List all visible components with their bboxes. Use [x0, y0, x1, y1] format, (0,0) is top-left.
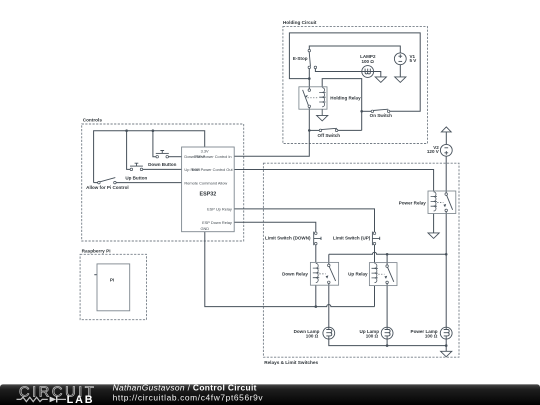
- junction node On Switch column: [360, 110, 363, 113]
- wire up button drop: [127, 131, 132, 170]
- wire down relay coil bottom drop: [315, 285, 317, 306]
- wire power relay coil bottom to ground: [433, 214, 435, 233]
- wire On Switch left stub: [362, 110, 373, 112]
- pushbutton Up Button: [130, 163, 143, 170]
- section box Relays & Limit Switches: [263, 163, 459, 357]
- wire V1 minus to ground: [399, 65, 401, 77]
- relay U Holding Relay: [299, 87, 327, 109]
- svg-text:NathanGustavson / Control Circ: NathanGustavson / Control Circuit: [113, 382, 257, 392]
- junction node down relay coil / gnd bus: [315, 305, 318, 308]
- switch Limit Switch (DOWN): [314, 232, 321, 246]
- wire down button to ESP Down Read: [167, 156, 181, 158]
- wire allow-switch left stub: [94, 182, 99, 184]
- svg-text:On Switch: On Switch: [370, 113, 392, 118]
- voltage source V2: [440, 144, 452, 156]
- ground (power relay coil): [428, 233, 439, 239]
- ground (LAMP2): [375, 77, 386, 83]
- wire ESP Up Relay to Limit Switch (UP): [234, 209, 374, 232]
- node flag above V2: [441, 127, 451, 132]
- wire allow-switch to ESP Remote Command Allow: [115, 182, 182, 184]
- section box Controls: [82, 124, 244, 241]
- logo diode: [50, 397, 57, 403]
- wire Limit Switch (UP) to up relay coil: [374, 245, 376, 263]
- wire LAMP2 right to ground: [374, 72, 381, 77]
- FOOTER: [0, 382, 540, 405]
- ground (V1): [395, 77, 406, 83]
- junction node up lamp / ground bus: [386, 344, 389, 347]
- svg-text:5 V: 5 V: [410, 58, 417, 63]
- svg-text:Holding Relay: Holding Relay: [330, 95, 361, 100]
- wire Up Lamp bottom stub: [386, 339, 388, 346]
- ground (lamp bus): [441, 351, 452, 357]
- junction node power lamp column / bus: [445, 253, 448, 256]
- wire up relay switch top riser: [386, 254, 388, 266]
- svg-text:Off Switch: Off Switch: [318, 133, 341, 138]
- svg-text:Power Relay: Power Relay: [399, 201, 427, 206]
- svg-text:ESP Power Control In: ESP Power Control In: [194, 154, 232, 159]
- wire lamp ground bus: [329, 339, 446, 346]
- svg-text:ESP32: ESP32: [200, 191, 217, 197]
- svg-text:Down Button: Down Button: [148, 162, 177, 167]
- junction node down button tap: [152, 129, 155, 132]
- wire Power Lamp bottom stub and ground stem: [445, 339, 447, 351]
- ic U ESP32 box: [182, 147, 235, 232]
- wire V2 minus to power relay switch top: [445, 156, 447, 194]
- junction node up relay switch / bus: [386, 253, 389, 256]
- svg-text:ESP Power Control Out: ESP Power Control Out: [192, 167, 234, 172]
- wire ESP Down Relay to Limit Switch (DOWN): [234, 222, 316, 232]
- svg-text:Limit Switch (UP): Limit Switch (UP): [333, 236, 371, 241]
- junction node up button tap: [125, 129, 128, 132]
- svg-text:3.3V: 3.3V: [201, 148, 209, 153]
- svg-text:http://circuitlab.com/c4fw7pt6: http://circuitlab.com/c4fw7pt656r9v: [113, 392, 264, 402]
- svg-text:Pi: Pi: [110, 278, 114, 283]
- switch SW E-Stop: [308, 49, 317, 68]
- svg-text:ESP Down Relay: ESP Down Relay: [202, 220, 232, 225]
- wire down relay switch top riser: [328, 254, 330, 265]
- svg-text:Relays & Limit Switches: Relays & Limit Switches: [264, 360, 318, 365]
- wire down relay switch to Down Lamp: [328, 282, 330, 327]
- section box Holding Circuit: [283, 27, 428, 144]
- lamp Up Lamp: [381, 327, 393, 339]
- relay U Down Relay: [310, 262, 338, 285]
- wire Pi pin stub: [94, 274, 97, 276]
- ground (holding relay coil): [321, 109, 323, 115]
- svg-text:Up Button: Up Button: [125, 176, 147, 181]
- wire E-stop common to V1 plus: [309, 46, 400, 53]
- relay U Up Relay: [369, 263, 397, 286]
- svg-text:ESP Up Relay: ESP Up Relay: [207, 206, 232, 211]
- wire holding relay switch bottom to ESP Power Control In: [234, 106, 309, 156]
- svg-text:Controls: Controls: [83, 117, 103, 122]
- wire V2 flag stem: [445, 132, 447, 145]
- wire down button drop: [153, 131, 157, 157]
- wire power relay switch bottom to Power Lamp: [445, 210, 447, 327]
- wire up relay coil bottom drop: [374, 286, 376, 307]
- wire holding-loop: E-stop pole to On Switch via outer box: [289, 33, 420, 111]
- switch SW On Switch: [371, 109, 390, 112]
- svg-text:Down Relay: Down Relay: [282, 271, 308, 276]
- wire Off Switch left stub: [309, 129, 320, 131]
- svg-text:100 Ω: 100 Ω: [425, 333, 438, 338]
- switch SW Allow for Pi Control: [98, 178, 117, 184]
- SECTION-BOXES: [80, 27, 459, 358]
- ic Pi box: [97, 264, 130, 311]
- wire E-stop throw to LAMP2 left: [315, 67, 361, 71]
- wire relay switch bus with hop over limit-up column: [329, 252, 446, 254]
- footer bar: [0, 384, 540, 405]
- relay U Power Relay: [428, 191, 456, 214]
- junction node Off Switch column: [308, 129, 311, 132]
- svg-text:E-Stop: E-Stop: [293, 56, 308, 61]
- svg-text:Raspberry Pi: Raspberry Pi: [82, 248, 111, 253]
- svg-text:Allow for Pi Control: Allow for Pi Control: [86, 185, 128, 190]
- svg-text:Limit Switch (DOWN): Limit Switch (DOWN): [265, 236, 311, 241]
- junction node E-stop/box: [308, 77, 311, 80]
- junction node power lamp / ground bus: [445, 344, 448, 347]
- voltage source V1: [394, 53, 406, 65]
- svg-text:GND: GND: [200, 226, 209, 231]
- lamp Down Lamp: [323, 327, 335, 339]
- wire Off Switch right stub: [337, 129, 362, 131]
- wire holding relay coil top to On/Off switch column: [322, 79, 362, 131]
- svg-text:LAB: LAB: [67, 394, 95, 405]
- svg-text:Up Relay: Up Relay: [348, 271, 368, 276]
- wire ESP GND bus with hop over down-lamp column: [205, 232, 375, 307]
- svg-text:100 Ω: 100 Ω: [306, 333, 319, 338]
- svg-text:Holding Circuit: Holding Circuit: [283, 20, 317, 25]
- wire E-stop bottom through node to holding relay switch top: [308, 67, 310, 90]
- wire ESP Power Control Out to power relay coil: [234, 170, 433, 192]
- svg-text:100 Ω: 100 Ω: [366, 333, 379, 338]
- wire up button to ESP Up Read: [142, 168, 182, 170]
- lamp Power Lamp: [440, 327, 452, 339]
- svg-text:Remote Command Allow: Remote Command Allow: [184, 180, 227, 185]
- logo resistor zigzag: [17, 397, 48, 401]
- svg-text:120 V: 120 V: [427, 149, 439, 154]
- wire controls 3.3V bus: [94, 131, 205, 183]
- pushbutton Down Button: [156, 151, 169, 158]
- switch Limit Switch (UP): [372, 232, 379, 246]
- wire up relay switch to Up Lamp: [386, 282, 388, 327]
- section box Raspberry Pi: [80, 254, 146, 319]
- wire Limit Switch (DOWN) to down relay coil: [315, 245, 317, 263]
- svg-text:100 Ω: 100 Ω: [361, 59, 374, 64]
- switch SW Off Switch: [319, 128, 338, 131]
- lamp LAMP2: [362, 66, 374, 78]
